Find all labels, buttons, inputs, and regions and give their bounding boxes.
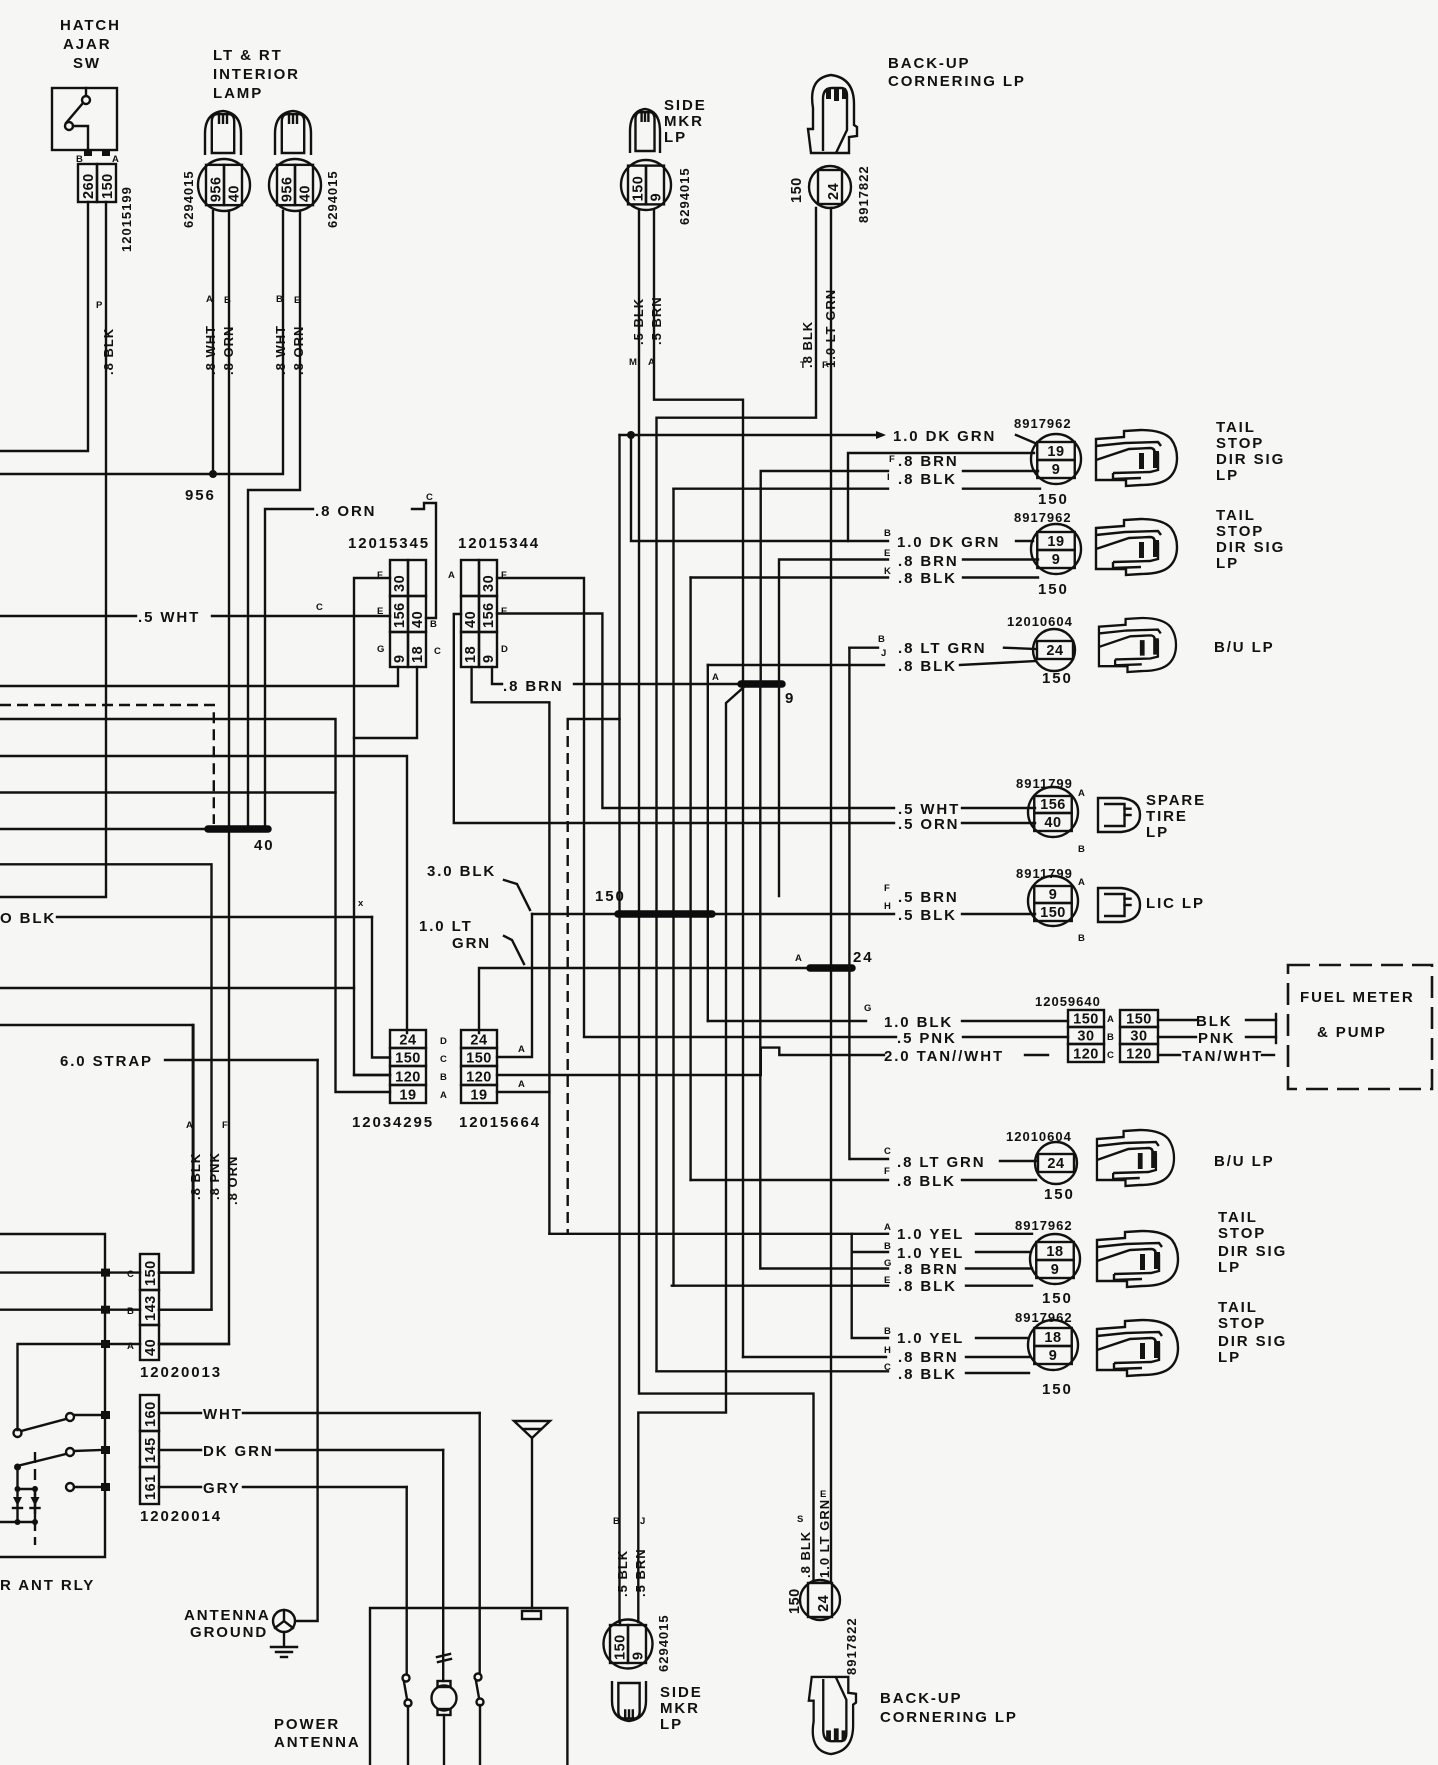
wire 12015664 pin B TAN to fuel [497, 1048, 884, 1075]
svg-text:19: 19 [1047, 444, 1064, 460]
splice 9 bar [741, 680, 782, 688]
svg-text:.8 BLK: .8 BLK [101, 328, 116, 375]
svg-text:B: B [878, 634, 885, 645]
wires fuel right [1158, 1019, 1196, 1021]
tail stop lamp icon 2 [1096, 519, 1177, 575]
wire tail2 .8 BLK from 150 trunk [689, 578, 691, 1181]
wire 12015345 pin C [354, 667, 417, 738]
svg-text:150: 150 [395, 1051, 421, 1067]
wire 988 line from left edge [0, 987, 354, 989]
relay switch 1 [14, 1429, 22, 1437]
svg-text:B/U LP: B/U LP [1214, 639, 1275, 656]
svg-text:P: P [96, 300, 103, 311]
wire 12020013 pin A riser [159, 1343, 229, 1345]
svg-text:SPARE: SPARE [1146, 792, 1206, 809]
svg-text:30: 30 [1130, 1029, 1147, 1045]
svg-text:MKR: MKR [664, 113, 704, 130]
svg-text:.8 BLK: .8 BLK [188, 1153, 203, 1200]
svg-text:A: A [1078, 788, 1085, 799]
connector 8917962 tail2 [1031, 524, 1081, 574]
wire fuel 1.0 BLK [708, 1020, 866, 1022]
svg-text:19: 19 [470, 1088, 487, 1104]
svg-text:150: 150 [1042, 1290, 1073, 1307]
wire LT GRN 849 trunk to B/U lamps [848, 648, 850, 1159]
svg-text:9: 9 [481, 654, 497, 663]
svg-text:.8 BLK: .8 BLK [798, 1531, 813, 1578]
svg-text:.8 PNK: .8 PNK [207, 1152, 222, 1200]
svg-text:A: A [518, 1079, 525, 1090]
svg-text:LP: LP [1216, 467, 1239, 484]
svg-text:.8 BLK: .8 BLK [898, 471, 957, 488]
wire DK GRN tail1 [620, 434, 883, 436]
wire tail1-tail2 19 link [848, 453, 1034, 541]
svg-text:TAIL: TAIL [1216, 419, 1256, 436]
wire tail4 .8 BLK [657, 1370, 889, 1372]
connector 6294015 interior lamp 2 [269, 159, 321, 211]
wire WHT to power antenna [159, 1412, 201, 1414]
power antenna box [370, 1608, 567, 1765]
svg-text:30: 30 [481, 575, 497, 592]
svg-text:SIDE: SIDE [660, 1684, 703, 1701]
svg-text:G: G [884, 1258, 891, 1269]
svg-text:18: 18 [410, 646, 426, 663]
wire 792 line from left edge [0, 791, 336, 793]
wire side marker .5 BRN trunk [654, 210, 743, 1357]
svg-text:12020013: 12020013 [140, 1364, 222, 1381]
svg-text:A: A [440, 1090, 447, 1101]
svg-text:150: 150 [1040, 905, 1066, 921]
svg-text:150: 150 [1073, 1012, 1099, 1028]
bottom side marker wires [619, 1622, 621, 1625]
svg-text:DIR SIG: DIR SIG [1216, 451, 1285, 468]
svg-text:.5 BLK: .5 BLK [615, 1550, 630, 1597]
power antenna relay box [0, 1234, 105, 1557]
svg-text:.5 BLK: .5 BLK [898, 907, 957, 924]
relay diode pack [16, 1489, 18, 1522]
svg-text:C: C [884, 1146, 891, 1157]
back-up cornering lamp icon top [808, 75, 857, 153]
svg-text:BACK-UP: BACK-UP [888, 55, 970, 72]
svg-text:6294015: 6294015 [677, 167, 692, 225]
svg-text:TAIL: TAIL [1216, 507, 1256, 524]
connector 8917962 tail4 [1028, 1320, 1078, 1370]
svg-text:40: 40 [298, 185, 314, 202]
svg-text:PNK: PNK [1198, 1030, 1235, 1047]
svg-text:LIC LP: LIC LP [1146, 895, 1205, 912]
svg-text:E: E [820, 1489, 826, 1500]
svg-text:O BLK: O BLK [0, 910, 56, 927]
svg-text:.5 BRN: .5 BRN [633, 1548, 648, 1597]
svg-text:160: 160 [143, 1401, 159, 1427]
wire 12015344 pin F to .5 PNK fuel [497, 578, 896, 1037]
svg-text:.5 PNK: .5 PNK [897, 1030, 957, 1047]
svg-text:G: G [377, 644, 384, 655]
svg-text:40: 40 [227, 185, 243, 202]
svg-text:A: A [127, 1341, 134, 1352]
LIC lamp icon [1098, 888, 1140, 922]
svg-text:120: 120 [1073, 1047, 1099, 1063]
wire YEL row tail3 A [549, 1233, 888, 1235]
svg-text:B: B [430, 619, 437, 630]
svg-text:C: C [434, 646, 441, 657]
svg-text:.8 ORN: .8 ORN [315, 503, 376, 520]
connector 6294015 side marker top [621, 160, 671, 210]
svg-text:CORNERING LP: CORNERING LP [888, 73, 1026, 90]
wire 1.0 LT GRN 24 line [479, 968, 810, 1033]
svg-text:CORNERING LP: CORNERING LP [880, 1709, 1018, 1726]
wire DK GRN trunk down [618, 435, 620, 1622]
splice 150 bar [618, 910, 712, 918]
svg-text:LT & RT: LT & RT [213, 47, 283, 64]
tail stop lamp icon 3 [1097, 1231, 1178, 1287]
wire 12015345 pin G to left edge [0, 667, 398, 686]
svg-text:T: T [800, 360, 806, 371]
wire tail4 .8 BRN [743, 1356, 886, 1358]
wire B/U2 .8 LT GRN [851, 1158, 888, 1160]
svg-text:.8 BRN: .8 BRN [898, 553, 959, 570]
connector 12015344 [461, 560, 479, 596]
svg-text:MKR: MKR [660, 1700, 700, 1717]
relay pin1 wire [0, 1271, 101, 1273]
svg-text:.8 BRN: .8 BRN [898, 1261, 959, 1278]
wire 12015664 pin A 19 [497, 1091, 549, 1093]
svg-text:TAIL: TAIL [1218, 1209, 1258, 1226]
svg-text:9: 9 [1052, 462, 1061, 478]
tail stop lamp icon 4 [1097, 1320, 1178, 1376]
svg-text:A: A [1078, 877, 1085, 888]
connector 12010604 B/U1 [1033, 629, 1075, 671]
connector 8911799 spare tire [1028, 787, 1078, 837]
svg-text:9: 9 [392, 654, 408, 663]
svg-text:24: 24 [826, 183, 842, 200]
svg-text:143: 143 [143, 1295, 159, 1321]
svg-text:120: 120 [466, 1070, 492, 1086]
svg-text:.8 ORN: .8 ORN [225, 1156, 240, 1205]
connector 12059640 left [1068, 1010, 1104, 1027]
svg-text:30: 30 [1077, 1029, 1094, 1045]
svg-text:D: D [501, 644, 508, 655]
svg-text:24: 24 [470, 1033, 487, 1049]
svg-text:.8 BRN: .8 BRN [503, 678, 564, 695]
svg-text:150: 150 [789, 177, 805, 203]
svg-text:BLK: BLK [1196, 1013, 1233, 1030]
wire 12015344 pin 18 YEL trunk [472, 667, 550, 1234]
relay pin6 contact [66, 1483, 74, 1491]
svg-text:.8 BLK: .8 BLK [898, 1366, 957, 1383]
svg-text:150: 150 [1038, 491, 1069, 508]
svg-text:C: C [426, 492, 433, 503]
svg-text:C: C [127, 1269, 134, 1280]
svg-text:.8 ORN: .8 ORN [221, 326, 236, 375]
wire 12015344 pin 40 to .5 ORN spare tire [454, 614, 894, 823]
svg-text:AJAR: AJAR [63, 36, 111, 53]
svg-text:LP: LP [1218, 1259, 1241, 1276]
wire lamp1 pin A .8 WHT to 956 junction [212, 211, 214, 474]
svg-text:F: F [501, 570, 507, 581]
wire GRY to power antenna [159, 1486, 201, 1488]
svg-text:GROUND: GROUND [190, 1624, 268, 1641]
svg-text:SIDE: SIDE [664, 97, 707, 114]
svg-text:A: A [448, 570, 455, 581]
svg-text:B: B [127, 1306, 134, 1317]
connector 12020013 [140, 1254, 159, 1290]
svg-text:156: 156 [481, 602, 497, 628]
svg-text:.8 LT GRN: .8 LT GRN [897, 1154, 986, 1171]
svg-text:145: 145 [143, 1437, 159, 1463]
spare tire lamp icon [1098, 798, 1140, 832]
svg-text:9: 9 [631, 1651, 647, 1660]
svg-text:24: 24 [853, 949, 874, 966]
svg-text:.8 BLK: .8 BLK [897, 1173, 956, 1190]
svg-text:LP: LP [1146, 824, 1169, 841]
wire .8 ORN from 40 splice to 12015345 pin B [265, 509, 313, 826]
wire YEL branch tail4 [852, 1252, 888, 1338]
svg-text:INTERIOR: INTERIOR [213, 66, 300, 83]
wire B/U2 .8 BLK [691, 1179, 888, 1181]
svg-text:1.0 YEL: 1.0 YEL [897, 1245, 964, 1262]
svg-text:B: B [440, 1072, 447, 1083]
svg-text:24: 24 [1046, 643, 1063, 659]
svg-text:DIR SIG: DIR SIG [1216, 539, 1285, 556]
svg-text:12015344: 12015344 [458, 535, 540, 552]
svg-text:B: B [884, 1241, 891, 1252]
svg-text:ANTENNA: ANTENNA [274, 1734, 361, 1751]
svg-text:SW: SW [73, 55, 101, 72]
connector 8917962 tail1 [1031, 434, 1081, 484]
wire 719 line to 12034295 riser [0, 719, 390, 1092]
svg-text:LAMP: LAMP [213, 85, 263, 102]
svg-text:8917822: 8917822 [844, 1617, 859, 1675]
svg-text:J: J [881, 648, 886, 659]
wire backup .8 BLK top [657, 208, 817, 1371]
svg-text:LP: LP [660, 1716, 683, 1733]
svg-text:40: 40 [143, 1339, 159, 1356]
wire DK GRN to power antenna [159, 1449, 201, 1451]
svg-text:150: 150 [143, 1260, 159, 1286]
svg-text:HATCH: HATCH [60, 17, 121, 34]
svg-text:C: C [316, 602, 323, 613]
svg-text:9: 9 [1049, 887, 1058, 903]
svg-text:TAN/WHT: TAN/WHT [1182, 1048, 1263, 1065]
svg-text:E: E [884, 548, 890, 559]
wire 40 line from left edge [0, 828, 209, 830]
connector 6294015 interior lamp 1 [198, 159, 250, 211]
svg-text:DK GRN: DK GRN [203, 1443, 274, 1460]
B/U lamp icon 2 [1097, 1130, 1174, 1186]
svg-text:FUEL METER: FUEL METER [1300, 989, 1415, 1006]
svg-text:40: 40 [1044, 815, 1061, 831]
svg-text:POWER: POWER [274, 1716, 340, 1733]
svg-text:STOP: STOP [1218, 1225, 1266, 1242]
wire DK GRN branch to tail2 [627, 431, 635, 439]
wire .5 WHT from left to 12015345 pin E [0, 615, 136, 617]
svg-text:B: B [224, 295, 231, 306]
B/U lamp icon 1 [1099, 618, 1176, 672]
svg-text:1.0 LT: 1.0 LT [419, 918, 473, 935]
svg-text:B: B [1107, 1032, 1114, 1043]
svg-text:40: 40 [463, 611, 479, 628]
connector 6294015 bottom side marker [604, 1620, 653, 1669]
svg-text:9: 9 [1049, 1348, 1058, 1364]
wire lamp1 pin B .8 ORN down to 12020013 pin A [159, 211, 229, 1344]
svg-text:A: A [795, 953, 802, 964]
connector 12015345 [390, 560, 408, 596]
svg-text:GRN: GRN [452, 935, 491, 952]
svg-text:E: E [884, 1275, 890, 1286]
svg-text:24: 24 [399, 1033, 416, 1049]
svg-text:I: I [887, 472, 890, 483]
svg-text:9: 9 [785, 690, 795, 707]
svg-text:40: 40 [254, 837, 275, 854]
connector 8917822 bottom [800, 1580, 840, 1620]
svg-text:150: 150 [100, 173, 116, 199]
svg-text:12015664: 12015664 [459, 1114, 541, 1131]
svg-text:DIR SIG: DIR SIG [1218, 1333, 1287, 1350]
wire 150 line to LIC [712, 913, 894, 915]
svg-text:F: F [884, 883, 890, 894]
svg-text:24: 24 [1047, 1156, 1064, 1172]
wire 12034295 pin B from 354 [354, 1074, 390, 1076]
wire 12015344 pin E to .5 WHT spare tire [497, 614, 894, 809]
svg-text:1.0 LT GRN: 1.0 LT GRN [823, 289, 838, 368]
svg-text:STOP: STOP [1216, 435, 1264, 452]
svg-text:24: 24 [816, 1595, 832, 1612]
wire 3.0 BLK 150 line [532, 913, 620, 915]
wire PNK line from left edge to 12020013 pin B [0, 864, 212, 1309]
svg-text:30: 30 [392, 575, 408, 592]
svg-text:A: A [884, 1222, 891, 1233]
svg-text:.8 BRN: .8 BRN [898, 1349, 959, 1366]
wire YEL branch tail3 B [852, 1234, 888, 1252]
svg-text:A: A [518, 1044, 525, 1055]
wire dashed option line [0, 705, 214, 824]
wire BRN 779 tail2 / LIC [779, 560, 888, 897]
svg-text:B: B [613, 1516, 620, 1527]
svg-text:ANTENNA: ANTENNA [184, 1607, 271, 1624]
svg-text:LP: LP [664, 129, 687, 146]
splice 24 bar [810, 964, 852, 972]
svg-text:TAIL: TAIL [1218, 1299, 1258, 1316]
svg-text:120: 120 [1126, 1047, 1152, 1063]
connector 12059640 right [1120, 1010, 1158, 1027]
svg-text:B/U LP: B/U LP [1214, 1153, 1275, 1170]
relay pin squares [101, 1269, 110, 1277]
svg-text:3.0 BLK: 3.0 BLK [427, 863, 496, 880]
svg-text:6294015: 6294015 [325, 170, 340, 228]
wire 12020013 pin B riser [159, 1308, 212, 1310]
svg-text:F: F [889, 454, 895, 465]
svg-text:GRY: GRY [203, 1480, 241, 1497]
svg-text:K: K [884, 566, 891, 577]
svg-text:1.0 YEL: 1.0 YEL [897, 1226, 964, 1243]
svg-text:DIR SIG: DIR SIG [1218, 1243, 1287, 1260]
wire hatch pin A .8 BLK to left edge [0, 202, 106, 897]
wire BRN trunk to tail1 [761, 471, 888, 684]
svg-text:260: 260 [81, 173, 97, 199]
svg-text:156: 156 [1040, 797, 1066, 813]
svg-text:18: 18 [1044, 1330, 1061, 1346]
wire side marker .5 BLK trunk [639, 210, 814, 1581]
svg-text:LP: LP [1218, 1349, 1241, 1366]
svg-text:161: 161 [143, 1474, 159, 1500]
svg-text:956: 956 [280, 176, 296, 202]
svg-text:9: 9 [1051, 1262, 1060, 1278]
svg-text:12010604: 12010604 [1007, 614, 1073, 629]
svg-text:6294015: 6294015 [656, 1614, 671, 1672]
wire DK GRN jog dashed [568, 718, 620, 720]
connector 12010604 B/U2 [1035, 1142, 1077, 1184]
connector 12020014 [140, 1395, 159, 1431]
svg-text:A: A [648, 357, 655, 368]
interior lamp bulb 2 [275, 111, 311, 155]
svg-text:.8 BLK: .8 BLK [898, 570, 957, 587]
svg-text:B: B [1078, 933, 1085, 944]
svg-text:x: x [358, 898, 364, 909]
svg-text:18: 18 [1046, 1244, 1063, 1260]
connector 12015199 on hatch switch [78, 164, 97, 202]
svg-text:12015345: 12015345 [348, 535, 430, 552]
wire .8 BRN to 9 splice [574, 683, 741, 685]
svg-text:R ANT RLY: R ANT RLY [0, 1577, 95, 1594]
wire 6.0 STRAP to antenna ground [165, 1059, 318, 1061]
wire backup 1.0 LT GRN trunk [830, 208, 832, 1581]
svg-text:E: E [501, 606, 507, 617]
svg-text:S: S [797, 1514, 803, 1525]
svg-text:C: C [884, 1362, 891, 1373]
bottom side marker bulb [612, 1681, 646, 1721]
svg-text:150: 150 [1038, 581, 1069, 598]
interior lamp bulb 1 [205, 111, 241, 155]
wire tail3 .8 BLK [672, 1284, 888, 1286]
wire BRN trunk down to tail3 [760, 684, 888, 1269]
svg-text:150: 150 [613, 1634, 629, 1660]
svg-text:A: A [1107, 1014, 1114, 1025]
svg-text:156: 156 [392, 602, 408, 628]
svg-text:BACK-UP: BACK-UP [880, 1690, 962, 1707]
svg-text:.5 WHT: .5 WHT [138, 609, 200, 626]
svg-text:C: C [1107, 1050, 1114, 1061]
svg-text:12020014: 12020014 [140, 1508, 222, 1525]
svg-text:6.0 STRAP: 6.0 STRAP [60, 1053, 153, 1070]
relay pin3 wire switch [18, 1344, 102, 1430]
svg-text:F: F [884, 1166, 890, 1177]
wire 756 line to 12034295 pin D [0, 756, 407, 1033]
svg-text:F: F [822, 360, 828, 371]
wire .8 BLK line to 12020013 pin C [0, 1025, 193, 1273]
tail stop lamp icon 1 [1096, 430, 1177, 486]
connector 12015664 [461, 1030, 497, 1048]
fuel meter box [1288, 965, 1432, 1089]
wire 12015664 riser to 150 [497, 914, 532, 1057]
svg-text:8917962: 8917962 [1015, 1218, 1073, 1233]
svg-text:B: B [1078, 844, 1085, 855]
svg-text:STOP: STOP [1218, 1315, 1266, 1332]
svg-text:.8 ORN: .8 ORN [291, 326, 306, 375]
svg-text:TIRE: TIRE [1146, 808, 1188, 825]
svg-text:& PUMP: & PUMP [1317, 1024, 1387, 1041]
svg-text:.8 LT GRN: .8 LT GRN [898, 640, 987, 657]
svg-text:B: B [276, 294, 283, 305]
wire 9 splice diagonal to bottom BRN [638, 687, 744, 1622]
svg-text:A: A [206, 294, 213, 305]
svg-text:12015199: 12015199 [119, 186, 134, 252]
svg-text:G: G [864, 1003, 871, 1014]
splice 40 bar [208, 825, 268, 833]
svg-text:12034295: 12034295 [352, 1114, 434, 1131]
svg-text:150: 150 [1042, 1381, 1073, 1398]
wire B/U1 .8 BLK from 150 trunk [707, 665, 709, 1021]
svg-text:LP: LP [1216, 555, 1239, 572]
